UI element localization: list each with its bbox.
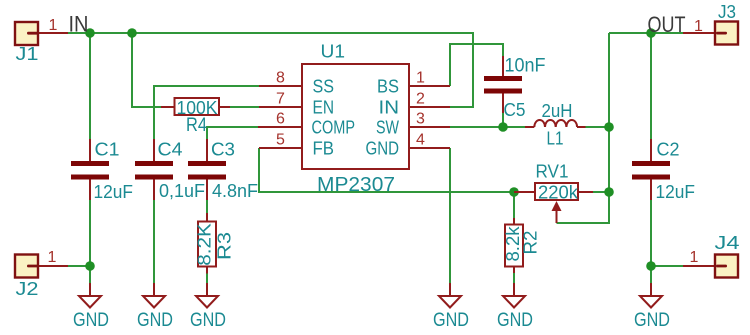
svg-text:2: 2 xyxy=(416,91,425,108)
svg-text:1: 1 xyxy=(416,70,425,87)
svg-text:3: 3 xyxy=(416,111,425,128)
svg-text:GND: GND xyxy=(190,310,226,331)
svg-text:IN: IN xyxy=(69,12,89,37)
svg-text:C3: C3 xyxy=(211,140,235,160)
svg-text:GND: GND xyxy=(137,310,173,331)
svg-text:J2: J2 xyxy=(16,279,39,299)
svg-text:GND: GND xyxy=(497,310,533,331)
svg-text:C2: C2 xyxy=(657,140,680,160)
svg-text:7: 7 xyxy=(276,91,285,108)
svg-text:R2: R2 xyxy=(521,231,541,255)
svg-text:2uH: 2uH xyxy=(542,101,573,121)
svg-text:6: 6 xyxy=(276,111,285,128)
svg-text:SW: SW xyxy=(376,118,399,138)
svg-text:4.8nF: 4.8nF xyxy=(212,181,258,201)
svg-text:R4: R4 xyxy=(186,115,207,136)
svg-text:EN: EN xyxy=(313,98,335,118)
svg-text:5: 5 xyxy=(276,132,285,149)
svg-text:C4: C4 xyxy=(158,140,183,160)
svg-text:MP2307: MP2307 xyxy=(317,174,395,196)
svg-text:C1: C1 xyxy=(95,140,120,160)
svg-text:GND: GND xyxy=(366,139,400,159)
svg-text:GND: GND xyxy=(634,310,670,331)
svg-text:R3: R3 xyxy=(215,232,235,260)
svg-text:8: 8 xyxy=(276,70,285,87)
svg-text:GND: GND xyxy=(73,310,109,331)
svg-text:IN: IN xyxy=(379,98,400,118)
svg-text:GND: GND xyxy=(433,310,469,331)
svg-text:J4: J4 xyxy=(715,233,740,253)
svg-text:12uF: 12uF xyxy=(94,182,134,202)
svg-text:4: 4 xyxy=(416,132,425,149)
svg-text:1: 1 xyxy=(48,249,57,266)
svg-text:U1: U1 xyxy=(321,42,346,62)
svg-text:L1: L1 xyxy=(547,129,564,149)
svg-text:SS: SS xyxy=(313,77,335,97)
svg-text:RV1: RV1 xyxy=(536,162,569,182)
svg-text:OUT: OUT xyxy=(648,12,686,37)
svg-text:12uF: 12uF xyxy=(656,182,696,202)
svg-text:8.2K: 8.2K xyxy=(195,223,215,266)
svg-text:J3: J3 xyxy=(718,2,736,22)
svg-text:COMP: COMP xyxy=(312,118,356,138)
svg-text:FB: FB xyxy=(313,139,335,159)
svg-text:1: 1 xyxy=(690,249,699,266)
svg-text:BS: BS xyxy=(377,77,399,97)
svg-text:10nF: 10nF xyxy=(505,56,546,77)
svg-text:1: 1 xyxy=(694,18,703,35)
svg-text:C5: C5 xyxy=(504,100,526,120)
svg-text:0,1uF: 0,1uF xyxy=(159,181,205,201)
svg-text:J1: J1 xyxy=(16,44,39,64)
svg-text:220k: 220k xyxy=(538,183,579,203)
svg-text:1: 1 xyxy=(49,17,58,34)
